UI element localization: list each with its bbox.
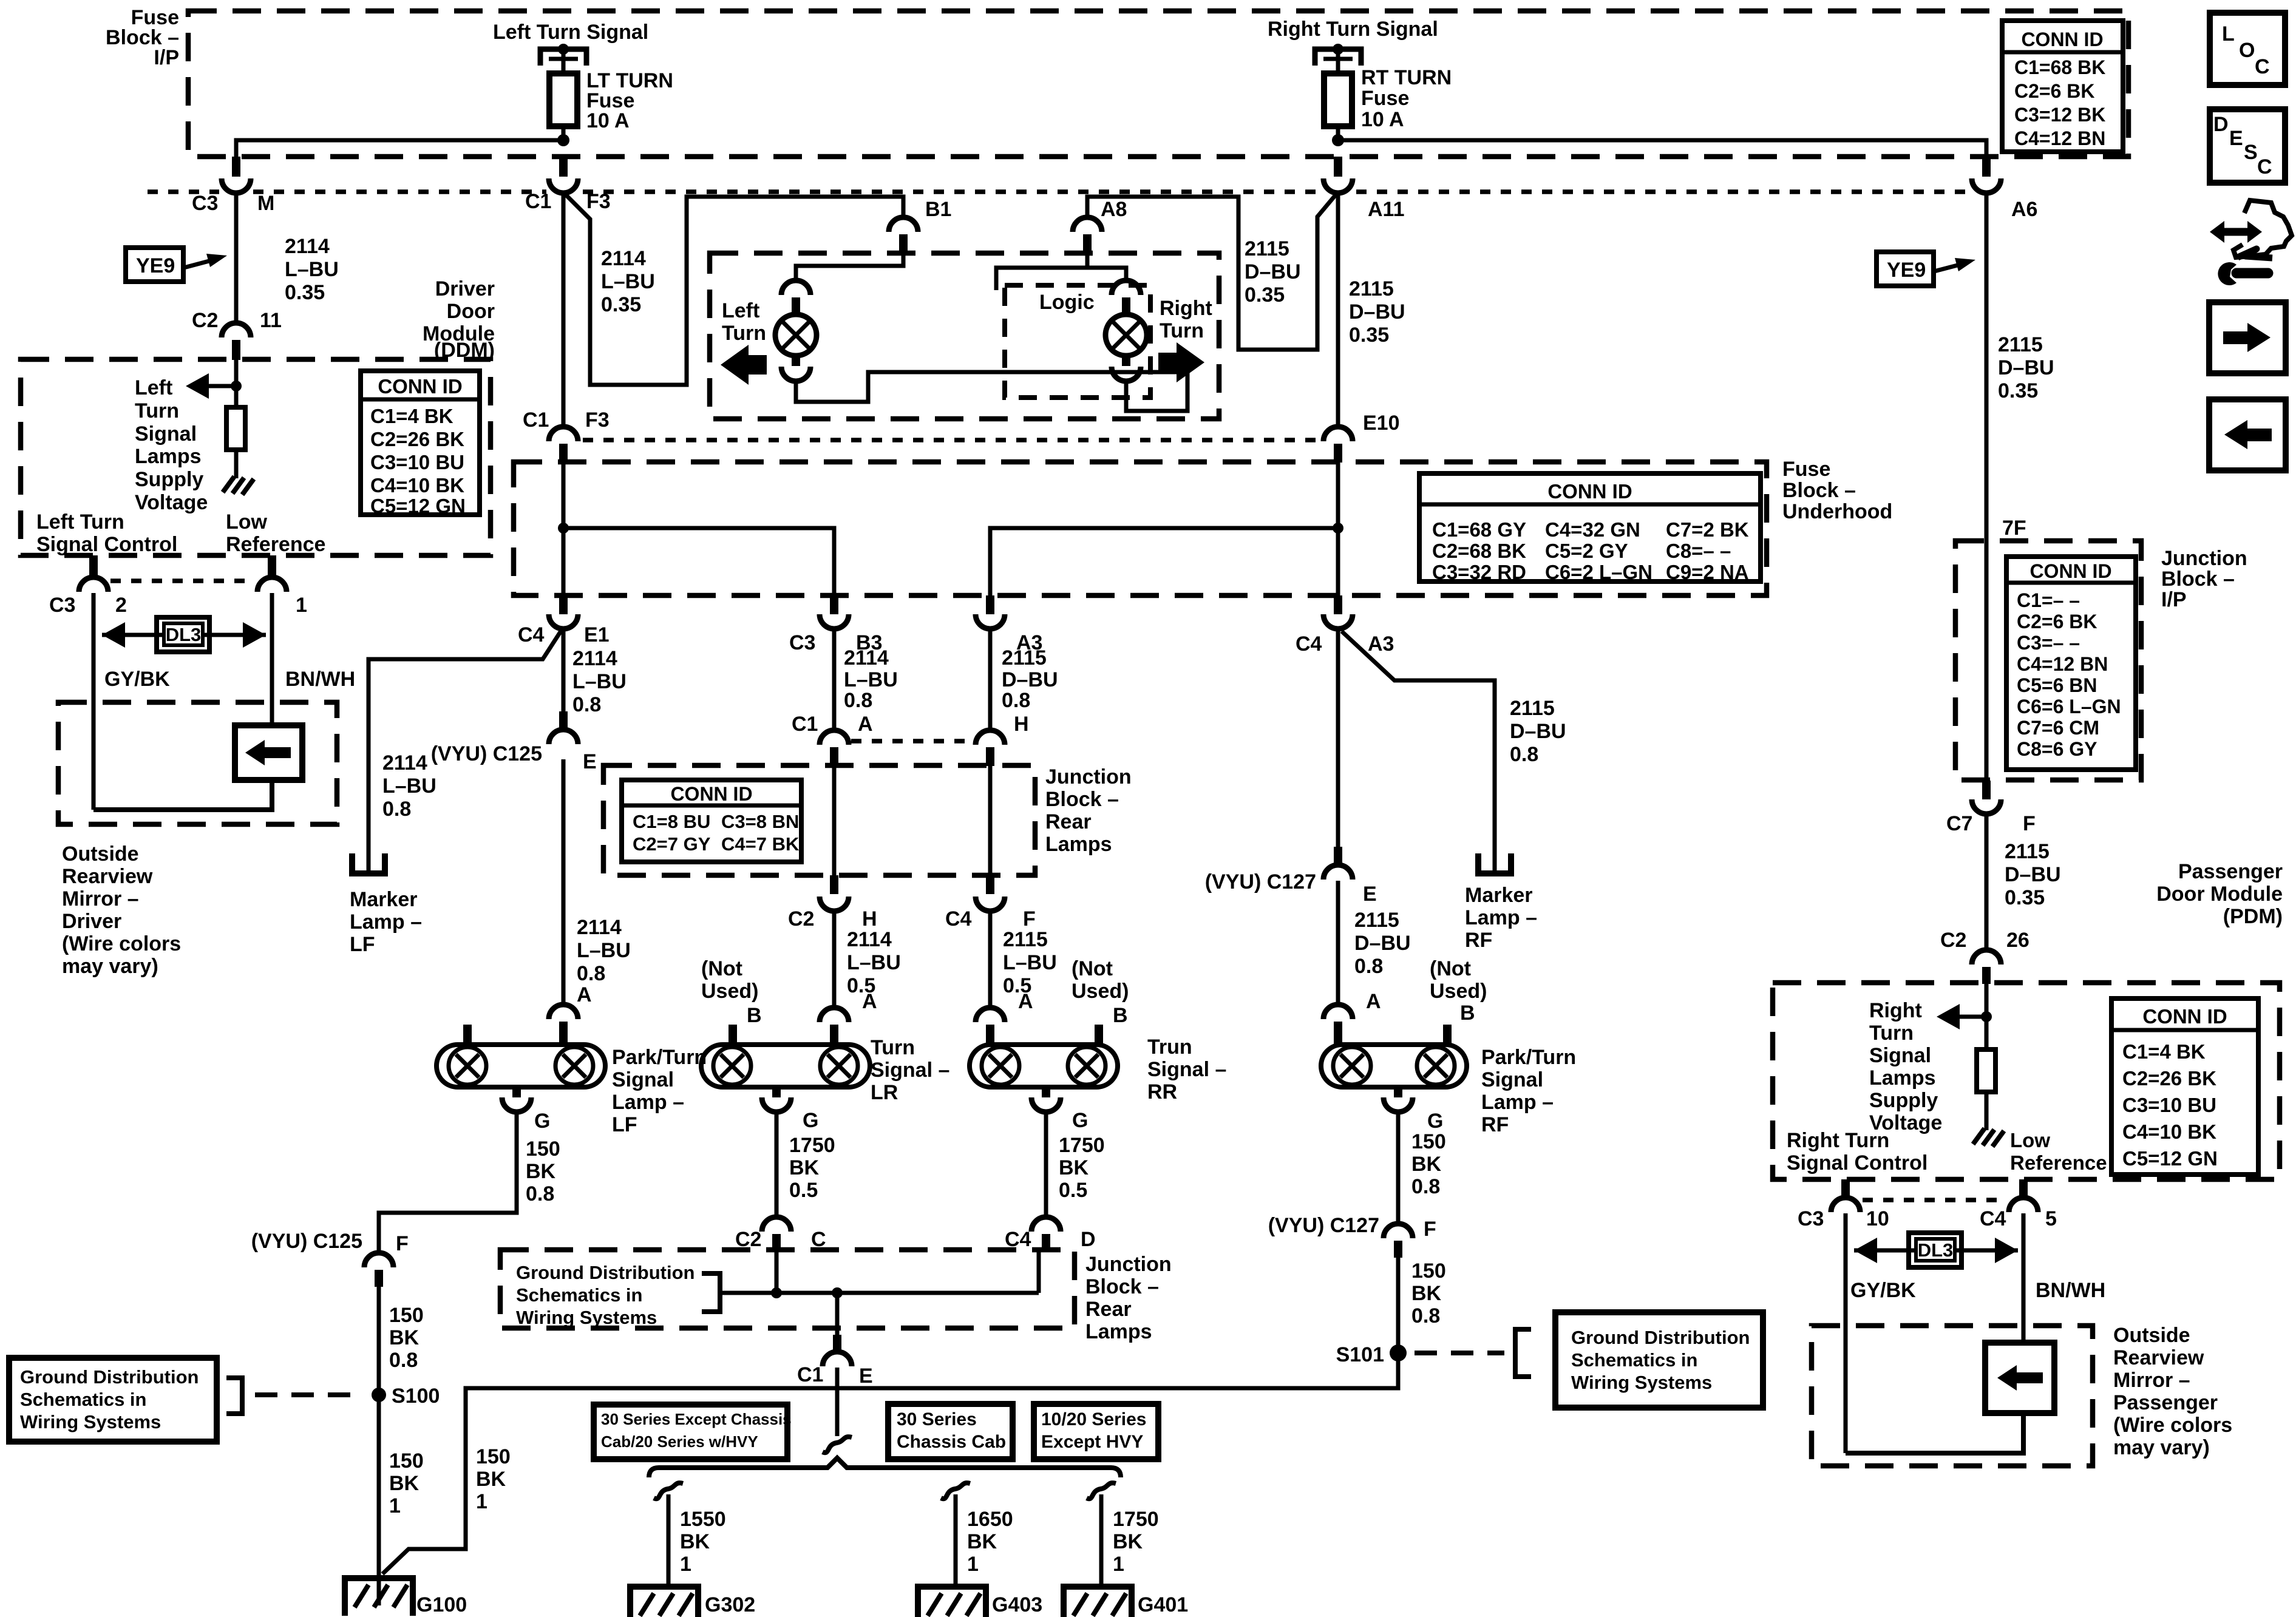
label Fuse Block - I/P [106, 6, 179, 69]
svg-text:G302: G302 [705, 1593, 755, 1616]
svg-text:Signal Control: Signal Control [36, 533, 177, 556]
svg-text:S: S [2244, 141, 2258, 164]
svg-text:Rear: Rear [1085, 1298, 1132, 1321]
label Driver Door Module (DDM) [423, 277, 495, 362]
svg-text:CONN ID: CONN ID [378, 375, 462, 398]
svg-text:C5=12 GN: C5=12 GN [370, 495, 466, 517]
svg-text:C2=68 BK: C2=68 BK [1432, 540, 1526, 562]
label DL3 with arrows [102, 617, 266, 652]
svg-text:BK: BK [389, 1472, 419, 1495]
wire rear ground junction [720, 1251, 1039, 1335]
svg-text:GY/BK: GY/BK [104, 668, 170, 691]
ground (PDM internal) [1973, 1128, 2004, 1147]
svg-text:C8=6 GY: C8=6 GY [2017, 738, 2097, 760]
connector C3/M [192, 157, 274, 215]
svg-text:11: 11 [260, 309, 282, 332]
svg-text:Ground Distribution: Ground Distribution [516, 1262, 695, 1283]
connector C7/F [1946, 781, 2036, 835]
svg-text:(Wire colors: (Wire colors [62, 932, 181, 955]
wire mirror loop (passenger) [1846, 1413, 2023, 1453]
svg-text:L–BU: L–BU [1003, 951, 1057, 974]
label (Not Used) RF [1430, 957, 1487, 1003]
svg-text:G: G [1427, 1110, 1443, 1133]
box right arrow [2209, 302, 2286, 373]
label 150 BK 0.8 (RF) [1411, 1130, 1446, 1198]
svg-text:I/P: I/P [2161, 588, 2187, 611]
svg-text:0.5: 0.5 [1059, 1179, 1087, 1202]
svg-text:B1: B1 [925, 198, 951, 221]
label Right Turn (flasher) [1160, 297, 1212, 342]
svg-text:0.35: 0.35 [601, 293, 641, 316]
connector A (RF lamp) [1323, 1005, 1353, 1045]
wire E1 main down [562, 629, 566, 711]
svg-text:G: G [1072, 1109, 1088, 1132]
svg-text:0.8: 0.8 [1411, 1175, 1440, 1198]
label Park/Turn Signal Lamp - LF [612, 1046, 707, 1136]
fuse block underhood dashed box [514, 462, 1767, 595]
wire A8 to logic and right lamp [996, 253, 1126, 290]
svg-text:Block –: Block – [1782, 479, 1856, 502]
svg-text:Cab/20 Series w/HVY: Cab/20 Series w/HVY [601, 1432, 758, 1451]
svg-text:(VYU) C127: (VYU) C127 [1205, 870, 1316, 893]
svg-text:BK: BK [789, 1156, 820, 1179]
ground G403 [918, 1587, 1042, 1617]
svg-text:150: 150 [526, 1137, 560, 1161]
svg-text:Voltage: Voltage [135, 491, 208, 514]
label Outside Rearview Mirror - Passenger [2113, 1324, 2232, 1459]
svg-text:G: G [534, 1110, 550, 1133]
bracket (S100) [226, 1378, 242, 1414]
svg-text:0.35: 0.35 [1349, 324, 1389, 347]
mirror arrow box (driver) [235, 725, 302, 780]
DDM dashed box [21, 359, 491, 555]
svg-text:F3: F3 [585, 408, 610, 432]
svg-text:1: 1 [476, 1490, 487, 1513]
label 1550 BK 1 [680, 1508, 726, 1576]
connector C3/10 [1798, 1179, 1889, 1230]
dotted link C1/A to H [851, 739, 973, 744]
svg-text:2115: 2115 [1245, 237, 1289, 260]
wire mirror loop (driver) [93, 780, 272, 810]
label Turn Signal - LR [871, 1036, 949, 1104]
svg-text:0.8: 0.8 [1002, 689, 1030, 712]
svg-text:C8=– –: C8=– – [1666, 540, 1731, 562]
svg-text:150: 150 [389, 1449, 424, 1473]
svg-text:C3: C3 [1798, 1207, 1824, 1230]
svg-text:7F: 7F [2002, 517, 2026, 540]
junction dot under LT fuse [557, 134, 569, 146]
box 30 Series Chassis Cab [888, 1404, 1013, 1459]
svg-text:L–BU: L–BU [382, 775, 436, 798]
svg-text:1: 1 [296, 594, 307, 617]
svg-text:C4: C4 [945, 907, 972, 931]
dashed link S100 [255, 1392, 364, 1397]
svg-text:C3: C3 [192, 192, 218, 215]
svg-text:2115: 2115 [1998, 333, 2043, 356]
svg-text:C3=12 BK: C3=12 BK [2014, 104, 2105, 126]
svg-text:C2=6 BK: C2=6 BK [2017, 611, 2097, 632]
svg-text:0.8: 0.8 [572, 693, 601, 716]
svg-text:Outside: Outside [62, 842, 139, 866]
svg-text:C3: C3 [789, 631, 815, 654]
svg-text:C1: C1 [797, 1363, 823, 1386]
svg-text:1750: 1750 [1059, 1134, 1105, 1157]
svg-text:A: A [1018, 990, 1033, 1013]
svg-text:BN/WH: BN/WH [2036, 1279, 2105, 1302]
splice symbol on C1/E wire [823, 1437, 852, 1453]
svg-text:2115: 2115 [1003, 928, 1048, 951]
arrow left (flasher) [721, 345, 767, 385]
svg-text:Reference: Reference [226, 533, 325, 556]
svg-text:S100: S100 [392, 1385, 440, 1408]
resistor (DDM) [226, 407, 245, 478]
svg-text:Signal: Signal [1481, 1068, 1543, 1091]
connector (VYU) C125 F [251, 1230, 409, 1287]
connector H (top) [976, 713, 1029, 766]
mirror driver dashed box [58, 702, 337, 824]
svg-text:E10: E10 [1363, 412, 1400, 435]
label 2114 L-BU 0.8 (B3) [844, 646, 898, 712]
svg-text:(VYU) C125: (VYU) C125 [251, 1230, 362, 1253]
resistor (PDM) [1977, 1049, 1995, 1130]
label 1750 BK 1 [1113, 1508, 1159, 1576]
svg-text:Supply: Supply [135, 468, 203, 491]
connector C1/F3 (row 2) [523, 408, 610, 463]
svg-text:Used): Used) [1430, 980, 1487, 1003]
svg-text:C: C [2257, 155, 2272, 178]
svg-text:Turn: Turn [1160, 319, 1204, 342]
svg-text:C4=10 BK: C4=10 BK [2122, 1120, 2216, 1143]
box Ground Distribution Schematics in Wiring Systems (S100) [9, 1358, 217, 1442]
svg-text:Fuse: Fuse [1782, 458, 1830, 481]
PDM CONN ID table [2111, 998, 2258, 1175]
node Right Turn Signal [1268, 18, 1438, 41]
ground G302 [630, 1587, 755, 1617]
label Passenger Door Module (PDM) [2156, 860, 2283, 928]
svg-text:BK: BK [389, 1326, 419, 1349]
svg-text:Turn: Turn [871, 1036, 915, 1059]
svg-text:0.35: 0.35 [1245, 283, 1285, 307]
svg-text:Ground Distribution: Ground Distribution [20, 1366, 199, 1388]
bracket (S101) [1515, 1329, 1531, 1377]
label 2114 L-BU 0.5 A [847, 928, 901, 1013]
svg-text:I/P: I/P [154, 46, 179, 69]
svg-text:26: 26 [2006, 929, 2029, 952]
svg-text:1: 1 [389, 1494, 401, 1517]
svg-text:Reference: Reference [2010, 1151, 2107, 1174]
svg-text:0.8: 0.8 [844, 689, 872, 712]
svg-text:L–BU: L–BU [285, 258, 339, 281]
svg-text:F: F [396, 1232, 409, 1255]
svg-text:Chassis Cab: Chassis Cab [897, 1432, 1006, 1452]
lamp Park/Turn Signal Lamp - LF [436, 1025, 605, 1112]
svg-text:DL3: DL3 [166, 624, 202, 645]
label Outside Rearview Mirror - Driver [62, 842, 181, 978]
wire GY/BK [92, 593, 96, 810]
marker lamp RF [1475, 853, 1514, 876]
svg-text:Junction: Junction [1085, 1253, 1172, 1276]
connector (VYU) C127 F [1268, 1214, 1436, 1258]
svg-text:may vary): may vary) [62, 955, 158, 978]
svg-text:C2=7 GY: C2=7 GY [633, 833, 711, 855]
wire C127 F to S101 [1396, 1241, 1401, 1388]
svg-text:CONN ID: CONN ID [2142, 1005, 2227, 1028]
label 2115 D-BU 0.35 (C7/F) [2005, 840, 2061, 909]
svg-text:C2=6 BK: C2=6 BK [2014, 80, 2095, 102]
svg-text:L–BU: L–BU [844, 668, 898, 691]
connector E10 [1323, 412, 1400, 463]
svg-text:Schematics in: Schematics in [516, 1284, 642, 1306]
wire C4/A3 main down [1336, 629, 1340, 847]
svg-text:C1=4 BK: C1=4 BK [370, 405, 453, 427]
svg-text:Junction: Junction [2161, 547, 2247, 570]
splice curl G302 wire [654, 1483, 683, 1499]
svg-text:C1: C1 [525, 190, 551, 213]
connector A (RR lamp) [976, 1008, 1005, 1045]
lamp Left Turn (flasher) [775, 280, 817, 381]
svg-text:A8: A8 [1101, 198, 1127, 221]
svg-text:Passenger: Passenger [2178, 860, 2283, 883]
label Logic [1039, 291, 1095, 314]
ground G401 [1064, 1587, 1188, 1617]
label 2114 L-BU 0.35 (branch) [601, 247, 655, 316]
svg-text:Lamps: Lamps [1085, 1320, 1152, 1343]
connector C3/B3 [789, 595, 882, 654]
svg-text:CONN ID: CONN ID [1547, 480, 1632, 503]
svg-text:C4=7 BK: C4=7 BK [721, 833, 800, 855]
connector C2/11 [192, 309, 282, 360]
wire to G401 [1099, 1494, 1104, 1587]
svg-text:0.35: 0.35 [2005, 886, 2045, 909]
svg-text:150: 150 [476, 1445, 511, 1468]
label Trun Signal - RR [1147, 1036, 1226, 1103]
svg-text:C1=4 BK: C1=4 BK [2122, 1040, 2206, 1063]
label 2114 L-BU 0.8 (LF lamp) [577, 916, 631, 1006]
label Fuse Block - Underhood [1782, 458, 1892, 523]
label 2115 D-BU 0.8 (marker RF) [1510, 697, 1566, 766]
connector B not used (LR) [729, 1004, 762, 1045]
DDM CONN ID table [361, 371, 480, 517]
svg-text:Driver: Driver [62, 910, 121, 933]
svg-text:Trun: Trun [1147, 1036, 1192, 1059]
wire A11 main down [1336, 193, 1340, 425]
label 2114 L-BU 0.8 (E1) [572, 647, 627, 716]
svg-text:L–BU: L–BU [577, 939, 631, 962]
svg-text:(Not: (Not [1072, 957, 1113, 980]
junction dot under RT fuse [1332, 134, 1344, 146]
svg-text:C3=– –: C3=– – [2017, 632, 2080, 654]
svg-text:10/20 Series: 10/20 Series [1041, 1409, 1146, 1429]
svg-text:2114: 2114 [382, 751, 427, 775]
svg-text:C4=12 BN: C4=12 BN [2017, 653, 2108, 675]
wire bus right [1338, 140, 1986, 157]
svg-text:1550: 1550 [680, 1508, 726, 1531]
ground distribution rear-lamps dashed box [500, 1250, 1075, 1328]
bracket (rear GDS) [702, 1273, 720, 1312]
svg-text:C5=6 BN: C5=6 BN [2017, 674, 2097, 696]
svg-text:Wiring Systems: Wiring Systems [516, 1307, 657, 1328]
svg-text:L–BU: L–BU [572, 670, 627, 693]
svg-text:Marker: Marker [350, 888, 418, 911]
connector A8 [1073, 198, 1127, 253]
svg-text:A: A [577, 983, 592, 1006]
svg-text:Used): Used) [1072, 980, 1129, 1003]
label 150 BK 0.8 (S101) [1411, 1259, 1446, 1327]
svg-text:G403: G403 [992, 1593, 1042, 1616]
svg-text:Supply: Supply [1869, 1089, 1938, 1112]
svg-text:2114: 2114 [844, 646, 889, 670]
svg-text:F: F [2023, 812, 2036, 835]
ground (DDM internal) [223, 476, 254, 495]
connector A11 [1323, 157, 1405, 221]
label (Not Used) LR [701, 957, 758, 1003]
svg-text:C4=12 BN: C4=12 BN [2014, 127, 2105, 149]
label BN/WH (right) [2036, 1279, 2105, 1302]
svg-text:Underhood: Underhood [1782, 500, 1892, 523]
svg-text:(PDM): (PDM) [2223, 905, 2283, 928]
svg-text:1750: 1750 [1113, 1508, 1159, 1531]
wire B3 down [832, 629, 837, 730]
svg-text:B: B [1113, 1004, 1128, 1027]
wire RF ground [1396, 1112, 1401, 1224]
label RT TURN Fuse 10 A [1361, 66, 1452, 131]
svg-text:A: A [858, 713, 873, 736]
rear lamps CONN ID table [622, 780, 801, 862]
svg-text:C7: C7 [1946, 812, 1972, 835]
svg-text:2114: 2114 [847, 928, 892, 951]
lamp Right Turn (flasher) [1106, 280, 1147, 381]
svg-text:C4=10 BK: C4=10 BK [370, 474, 464, 497]
svg-text:RF: RF [1465, 929, 1492, 952]
svg-text:Low: Low [2010, 1129, 2050, 1151]
svg-text:Left Turn: Left Turn [36, 510, 124, 534]
svg-text:Right: Right [1160, 297, 1212, 320]
svg-text:CONN ID: CONN ID [2029, 560, 2111, 582]
svg-text:Right Turn: Right Turn [1787, 1129, 1889, 1152]
arrow to Right Turn Signal Lamps Supply Voltage [1937, 1004, 1986, 1029]
svg-text:0.8: 0.8 [526, 1182, 554, 1205]
svg-text:0.8: 0.8 [382, 798, 411, 821]
svg-text:E: E [859, 1364, 873, 1388]
svg-text:0.8: 0.8 [577, 962, 605, 985]
label 150 BK 1 (right branch) [476, 1445, 511, 1513]
fuse block I/P CONN ID table [2002, 21, 2123, 152]
brace 3-way split [649, 1458, 1121, 1477]
connector B1 [889, 198, 951, 253]
splice S100 [372, 1385, 440, 1408]
label A (RF) [1366, 990, 1381, 1013]
connector C3/2 [49, 555, 127, 617]
logic dashed box [1005, 285, 1150, 398]
label Ground Distribution Schematics in Wiring Systems (rear) [516, 1262, 695, 1328]
svg-text:2114: 2114 [572, 647, 617, 670]
svg-text:C2: C2 [192, 309, 218, 332]
label YE9 (left) [126, 248, 227, 282]
svg-text:BK: BK [1113, 1530, 1143, 1553]
svg-text:Block –: Block – [1085, 1275, 1159, 1298]
label Junction Block - Rear Lamps (lower) [1085, 1253, 1172, 1343]
svg-text:F: F [1023, 907, 1036, 931]
wires through rear junction block [834, 764, 990, 875]
connector (VYU) C127 E [1205, 847, 1377, 906]
svg-text:F3: F3 [586, 190, 611, 213]
svg-text:BK: BK [1059, 1156, 1089, 1179]
svg-text:30 Series Except Chassis: 30 Series Except Chassis [601, 1410, 792, 1428]
svg-text:1750: 1750 [789, 1134, 835, 1157]
dotted connector row line 1 [148, 189, 1968, 194]
svg-text:C5=2 GY: C5=2 GY [1545, 540, 1628, 562]
wire A3 down [988, 629, 993, 730]
lamp Park/Turn Signal Lamp - RF [1321, 1025, 1467, 1112]
svg-text:D–BU: D–BU [1349, 300, 1405, 324]
svg-text:0.8: 0.8 [1354, 955, 1383, 978]
svg-text:1650: 1650 [967, 1508, 1013, 1531]
label LT TURN Fuse 10 A [586, 69, 673, 132]
svg-text:C3=8 BN: C3=8 BN [721, 811, 799, 832]
label 2115 D-BU 0.35 (A6) [1998, 333, 2054, 402]
dotted link C3 pins [110, 578, 255, 583]
svg-text:Park/Turn: Park/Turn [612, 1046, 707, 1069]
wire A11 branch to A8 [1087, 194, 1336, 350]
label Park/Turn Signal Lamp - RF [1481, 1046, 1576, 1136]
svg-text:Signal –: Signal – [1147, 1058, 1226, 1081]
svg-text:Left: Left [135, 376, 172, 399]
svg-text:1: 1 [680, 1553, 691, 1576]
svg-text:H: H [1014, 713, 1029, 736]
svg-text:Fuse: Fuse [1361, 87, 1409, 110]
svg-text:Rear: Rear [1045, 810, 1092, 833]
svg-text:150: 150 [1411, 1259, 1446, 1283]
svg-text:YE9: YE9 [1887, 259, 1926, 282]
svg-text:Left: Left [722, 299, 759, 322]
label G (LF) [534, 1110, 550, 1133]
svg-text:C5=12 GN: C5=12 GN [2122, 1147, 2218, 1170]
wire BN/WH (right) [2022, 1213, 2026, 1344]
svg-text:2115: 2115 [1349, 277, 1394, 300]
svg-text:C2=26 BK: C2=26 BK [2122, 1067, 2216, 1090]
svg-text:C1=– –: C1=– – [2017, 589, 2080, 611]
box 30 Series Except Chassis Cab/20 Series w/HVY [594, 1405, 792, 1459]
box LOC [2210, 13, 2285, 85]
svg-text:Lamps: Lamps [1045, 833, 1112, 856]
svg-text:10: 10 [1866, 1207, 1889, 1230]
wire S100 to G100 [377, 1280, 381, 1605]
svg-text:0.35: 0.35 [1998, 379, 2038, 402]
label GY/BK (right) [1850, 1279, 1916, 1302]
svg-text:E: E [1363, 883, 1377, 906]
label 1750 BK 0.5 (LR) [789, 1134, 835, 1202]
svg-text:DL3: DL3 [1918, 1239, 1954, 1261]
svg-text:0.35: 0.35 [285, 281, 325, 304]
svg-text:BK: BK [680, 1530, 710, 1553]
label 150 BK 0.8 (LF) [526, 1137, 560, 1205]
svg-text:G: G [803, 1109, 818, 1132]
connector C1/E [797, 1335, 873, 1388]
label (Not Used) RR [1072, 957, 1129, 1003]
label Junction Block - Rear Lamps (upper) [1045, 765, 1132, 856]
box 10/20 Series Except HVY [1034, 1404, 1158, 1459]
svg-text:BK: BK [476, 1468, 506, 1491]
wire C1/E down [835, 1368, 840, 1436]
lamp Turn Signal - LR [701, 1045, 870, 1112]
svg-text:C1=68 BK: C1=68 BK [2014, 56, 2105, 78]
connector C4/E1 [518, 595, 610, 646]
svg-text:D–BU: D–BU [1354, 932, 1411, 955]
svg-text:Left Turn Signal: Left Turn Signal [493, 21, 648, 44]
wire E1 to marker lamp LF [369, 630, 562, 870]
svg-text:A: A [862, 990, 877, 1013]
svg-text:1: 1 [967, 1553, 979, 1576]
